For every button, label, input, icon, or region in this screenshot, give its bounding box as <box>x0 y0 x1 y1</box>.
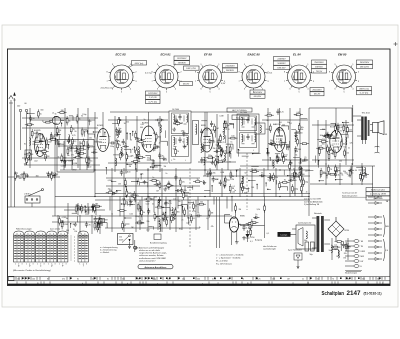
svg-text:MW: MW <box>361 256 365 258</box>
svg-text:2) 4 W bei AM-Betrieb: 2) 4 W bei AM-Betrieb <box>304 200 323 203</box>
svg-text:500: 500 <box>43 141 46 143</box>
svg-text:5n: 5n <box>99 217 101 219</box>
svg-text:1k: 1k <box>125 143 127 145</box>
svg-text:1k: 1k <box>47 175 49 177</box>
svg-text:500: 500 <box>19 178 22 180</box>
svg-text:12k: 12k <box>349 129 352 131</box>
svg-text:20k: 20k <box>282 124 285 126</box>
IF transformer Fi2 <box>237 114 259 153</box>
ratio filter box <box>232 115 249 120</box>
svg-text:250/245V: 250/245V <box>312 89 322 91</box>
RF front-end components <box>22 108 98 168</box>
pickup jack TA <box>294 253 302 260</box>
svg-text:300: 300 <box>301 174 304 176</box>
svg-text:300: 300 <box>212 141 215 143</box>
svg-text:Lautspr.: Lautspr. <box>280 234 288 237</box>
svg-text:0,25: 0,25 <box>192 211 196 213</box>
svg-text:47k: 47k <box>158 221 161 223</box>
svg-text:50p: 50p <box>182 279 185 281</box>
svg-text:0,5M: 0,5M <box>220 172 224 174</box>
svg-text:Wellenschalter: Wellenschalter <box>371 189 386 192</box>
svg-text:5k: 5k <box>341 175 343 177</box>
tube socket voltage table f <box>78 231 88 262</box>
svg-text:3: 3 <box>22 263 23 265</box>
svg-text:0/0,9V: 0/0,9V <box>183 83 190 85</box>
svg-text:150p: 150p <box>110 146 114 148</box>
svg-text:2M: 2M <box>186 133 189 135</box>
svg-text:1k: 1k <box>173 159 175 161</box>
svg-text:5: 5 <box>382 283 383 285</box>
svg-text:7/6,5V: 7/6,5V <box>316 71 323 73</box>
svg-text:sind zu beachten!: sind zu beachten! <box>139 260 156 263</box>
svg-text:2n: 2n <box>332 145 334 147</box>
svg-text:L: L <box>253 150 254 152</box>
svg-text:30k: 30k <box>134 195 137 197</box>
registration mark <box>394 42 398 46</box>
svg-text:8n: 8n <box>47 279 49 281</box>
svg-text:5k: 5k <box>295 155 297 157</box>
schematic border frame <box>8 49 391 286</box>
svg-text:c = Skalenl.: c = Skalenl. <box>100 252 110 254</box>
svg-text:70: 70 <box>332 279 334 281</box>
svg-text:a = Leitungssicherung: a = Leitungssicherung <box>100 246 118 249</box>
svg-text:1k: 1k <box>247 224 249 226</box>
svg-text:U K M L: U K M L <box>24 194 31 196</box>
svg-text:1k: 1k <box>225 151 227 153</box>
svg-text:0/6V (m): 0/6V (m) <box>135 63 144 65</box>
svg-text:12: 12 <box>307 283 309 285</box>
svg-text:240: 240 <box>17 106 20 108</box>
svg-text:110: 110 <box>119 237 122 239</box>
svg-text:300: 300 <box>119 130 122 132</box>
svg-text:0,25: 0,25 <box>72 135 76 137</box>
tube V2 ECH81 triode <box>97 129 109 152</box>
svg-text:W = 0,5 Watt: W = 0,5 Watt <box>216 260 228 263</box>
svg-text:90: 90 <box>182 141 184 143</box>
svg-text:5k: 5k <box>320 146 322 148</box>
rounded label box Antennen <box>138 265 173 269</box>
oscillator coil L5 <box>52 116 60 124</box>
svg-text:30k: 30k <box>277 157 280 159</box>
svg-text:50p: 50p <box>147 158 150 160</box>
wire y184 right <box>310 183 373 185</box>
wire EM80 columns <box>217 197 220 248</box>
svg-text:10n: 10n <box>89 137 92 139</box>
wire grid bus y112 <box>110 111 237 113</box>
capacitor C71 group <box>242 225 245 231</box>
svg-text:47k: 47k <box>72 160 75 162</box>
ratio detector label box <box>227 108 252 112</box>
svg-text:a: a <box>202 283 203 285</box>
svg-text:5k: 5k <box>96 204 98 206</box>
wire vertical x232 <box>231 197 233 212</box>
wire dashed vertical x247 <box>246 153 248 210</box>
svg-text:0,25: 0,25 <box>186 223 190 225</box>
detector stage components <box>262 108 309 170</box>
svg-text:2n: 2n <box>348 147 350 149</box>
svg-text:12k: 12k <box>227 279 230 281</box>
svg-text:300: 300 <box>165 217 168 219</box>
svg-text:8n: 8n <box>361 166 363 168</box>
loudspeaker socket label <box>278 232 291 237</box>
svg-text:1: 1 <box>26 263 27 265</box>
svg-text:10n: 10n <box>128 193 131 195</box>
svg-text:20k: 20k <box>152 160 155 162</box>
svg-text:12: 12 <box>217 283 219 285</box>
IF can interior <box>172 118 189 160</box>
svg-text:47k: 47k <box>254 218 257 220</box>
speaker LS <box>370 121 384 135</box>
svg-text:0,02: 0,02 <box>34 161 38 163</box>
svg-text:2x0,4Vss (m): 2x0,4Vss (m) <box>101 88 114 90</box>
svg-text:10n: 10n <box>329 250 332 252</box>
svg-text:0,02: 0,02 <box>167 279 171 281</box>
svg-text:5k: 5k <box>69 120 71 122</box>
svg-text:(51-5192-11): (51-5192-11) <box>364 291 382 295</box>
svg-text:90: 90 <box>124 123 126 125</box>
svg-text:(Messwerte: Punkte in Gestellr: (Messwerte: Punkte in Gestellrichtung) <box>13 269 51 272</box>
svg-text:8n: 8n <box>231 175 233 177</box>
svg-text:2n: 2n <box>181 219 183 221</box>
svg-text:1k: 1k <box>111 213 113 215</box>
svg-text:Zweitlautsprecher: Zweitlautsprecher <box>298 222 312 225</box>
svg-text:0,5M: 0,5M <box>219 116 223 118</box>
svg-text:12k: 12k <box>184 190 187 192</box>
svg-text:schlossen werden, Schutz-: schlossen werden, Schutz- <box>139 254 164 257</box>
mixer stage components <box>108 116 168 172</box>
svg-text:8n: 8n <box>24 143 26 145</box>
svg-text:20k: 20k <box>337 126 340 128</box>
svg-text:12k: 12k <box>181 130 184 132</box>
svg-text:1k: 1k <box>195 206 197 208</box>
wire drops from bus <box>109 197 111 211</box>
wire vertical x309 <box>308 108 310 197</box>
IF filter Fi1b <box>193 121 199 145</box>
wire vertical x95 <box>94 112 96 197</box>
svg-text:50p: 50p <box>343 147 346 149</box>
svg-text:245/240V: 245/240V <box>253 92 263 94</box>
svg-text:100: 100 <box>279 122 282 124</box>
IF transformer Fi1 <box>169 111 191 163</box>
svg-text:300: 300 <box>344 173 347 175</box>
svg-text:500: 500 <box>140 127 143 129</box>
svg-text:70: 70 <box>284 180 286 182</box>
svg-text:12k: 12k <box>38 135 41 137</box>
svg-text:100: 100 <box>164 203 167 205</box>
wire dashed vertical x190 <box>189 168 191 248</box>
svg-text:20k: 20k <box>147 221 150 223</box>
svg-text:5n: 5n <box>317 279 319 281</box>
svg-text:LW: LW <box>361 261 364 263</box>
svg-text:70: 70 <box>177 151 179 153</box>
svg-text:20k: 20k <box>275 177 278 179</box>
IF input parts <box>215 121 238 162</box>
svg-text:8n: 8n <box>58 144 60 146</box>
svg-text:30k: 30k <box>300 129 303 131</box>
power transformer Tr1 <box>317 216 320 252</box>
mains voltage selector <box>118 234 134 245</box>
svg-text:0,5M: 0,5M <box>212 279 216 281</box>
electrolytic capacitor C90 <box>305 242 309 251</box>
tube pinout V4 EABC80 <box>239 64 270 93</box>
fuse Si1 <box>133 246 136 249</box>
svg-text:0,25: 0,25 <box>338 131 342 133</box>
svg-text:150p: 150p <box>208 155 212 157</box>
svg-text:150p: 150p <box>294 188 298 190</box>
svg-text:20k: 20k <box>343 144 346 146</box>
svg-text:70: 70 <box>304 157 306 159</box>
svg-text:0/65V (m): 0/65V (m) <box>359 88 369 90</box>
svg-text:DM 225V: DM 225V <box>360 67 370 69</box>
wire vertical x205 <box>204 112 206 176</box>
svg-text:3) bei Stellung TA: 3) bei Stellung TA <box>304 203 320 206</box>
svg-text:2n: 2n <box>346 245 348 247</box>
svg-text:100: 100 <box>154 196 157 198</box>
svg-text:ECC85: ECC85 <box>34 130 41 132</box>
wire heater bus y216 <box>52 215 232 217</box>
tuner box interior <box>58 141 95 170</box>
svg-text:0,1: 0,1 <box>125 172 128 174</box>
svg-text:B250: B250 <box>345 230 349 232</box>
svg-text:500: 500 <box>173 148 176 150</box>
wire anode risers <box>103 108 336 129</box>
antenna sockets <box>19 109 22 112</box>
svg-text:47k: 47k <box>300 168 303 170</box>
svg-text:1: 1 <box>48 263 49 265</box>
svg-text:N = 10% Toleranz: N = 10% Toleranz <box>216 264 232 266</box>
wire switch drop <box>31 203 33 207</box>
svg-text:90: 90 <box>118 141 120 143</box>
svg-text:25p: 25p <box>134 158 137 160</box>
svg-text:5n: 5n <box>170 210 172 212</box>
tube V1a ECC85 triode <box>35 134 46 157</box>
svg-text:0,1: 0,1 <box>74 141 77 143</box>
svg-text:2n: 2n <box>306 192 308 194</box>
svg-text:0,25: 0,25 <box>295 176 299 178</box>
svg-text:in Stellung UKW: in Stellung UKW <box>370 193 387 196</box>
svg-text:30k: 30k <box>362 279 365 281</box>
svg-text:E250: E250 <box>251 237 255 239</box>
svg-text:70: 70 <box>228 129 230 131</box>
detector lower parts <box>289 150 309 196</box>
svg-text:500: 500 <box>63 158 66 160</box>
magic eye network components <box>203 168 308 197</box>
svg-text:10n: 10n <box>294 115 297 117</box>
svg-text:2n: 2n <box>267 120 269 122</box>
svg-text:500: 500 <box>197 279 200 281</box>
svg-text:500: 500 <box>245 173 248 175</box>
svg-text:0,5M: 0,5M <box>61 165 65 167</box>
svg-text:100/85V: 100/85V <box>277 63 286 65</box>
tube pinout V3 EF89 <box>195 64 226 93</box>
svg-text:4,5 mg: 4,5 mg <box>145 73 152 75</box>
tone network components <box>106 168 203 232</box>
svg-text:Bandbreitenregelung: Bandbreitenregelung <box>150 242 167 245</box>
svg-text:267/260V: 267/260V <box>177 58 187 60</box>
electrolytic capacitor C91 <box>311 242 315 251</box>
svg-text:500: 500 <box>85 131 88 133</box>
svg-text:20k: 20k <box>270 140 273 142</box>
svg-text:5k: 5k <box>143 212 145 214</box>
svg-text:0,02: 0,02 <box>129 213 133 215</box>
svg-text:47k: 47k <box>211 226 214 228</box>
wire PSU riser <box>308 197 310 217</box>
svg-text:300: 300 <box>66 230 69 232</box>
svg-text:2n: 2n <box>46 147 48 149</box>
svg-text:500: 500 <box>339 160 342 162</box>
svg-text:2,1/1,9V: 2,1/1,9V <box>149 97 158 99</box>
svg-text:25p: 25p <box>20 174 23 176</box>
svg-text:Ratio-Filter: Ratio-Filter <box>236 116 245 119</box>
wire bus y200 <box>95 199 310 201</box>
svg-text:1: 1 <box>15 263 16 265</box>
wire bus y176 <box>203 175 310 177</box>
svg-text:(von unten): (von unten) <box>50 228 60 231</box>
svg-text:2n: 2n <box>302 279 304 281</box>
svg-text:2M: 2M <box>148 196 151 198</box>
svg-text:0,02: 0,02 <box>50 139 54 141</box>
svg-text:150p: 150p <box>296 132 300 134</box>
svg-text:EABC 80: EABC 80 <box>248 53 261 57</box>
svg-text:300: 300 <box>185 195 188 197</box>
svg-text:8n: 8n <box>261 173 263 175</box>
svg-text:300: 300 <box>48 142 51 144</box>
svg-text:50p: 50p <box>118 128 121 130</box>
svg-text:3,2k: 3,2k <box>257 209 261 211</box>
svg-text:30k: 30k <box>122 279 125 281</box>
svg-text:0,1: 0,1 <box>117 144 120 146</box>
svg-text:5k: 5k <box>58 157 60 159</box>
svg-text:L: L <box>185 160 186 162</box>
svg-text:5n: 5n <box>230 142 232 144</box>
svg-text:12: 12 <box>292 283 294 285</box>
svg-text:30k: 30k <box>80 143 83 145</box>
IF stage components <box>198 114 236 170</box>
svg-text:10n: 10n <box>93 149 96 151</box>
callout boxes V5 <box>312 60 327 64</box>
svg-text:100: 100 <box>88 167 91 169</box>
svg-text:150p: 150p <box>32 144 36 146</box>
svg-text:1k: 1k <box>222 132 224 134</box>
tone area lower <box>137 200 214 230</box>
svg-text:20k: 20k <box>261 176 264 178</box>
svg-text:247/245V: 247/245V <box>148 93 158 95</box>
svg-text:2n: 2n <box>165 173 167 175</box>
tube socket voltage tables a-e <box>14 231 24 262</box>
svg-text:47k: 47k <box>71 155 74 157</box>
svg-text:UKW: UKW <box>72 170 77 172</box>
svg-text:1,5k: 1,5k <box>238 224 242 226</box>
svg-text:5k: 5k <box>229 162 231 164</box>
svg-text:1M: 1M <box>211 213 214 215</box>
svg-text:5k: 5k <box>293 169 295 171</box>
svg-text:2n: 2n <box>144 119 146 121</box>
svg-text:1k: 1k <box>170 185 172 187</box>
svg-text:20k: 20k <box>108 189 111 191</box>
svg-text:70: 70 <box>140 206 142 208</box>
svg-text:0,1: 0,1 <box>267 233 270 235</box>
svg-text:0,1: 0,1 <box>132 149 135 151</box>
svg-text:30k: 30k <box>61 144 64 146</box>
wire output vertical x353 <box>353 105 361 165</box>
svg-text:2n: 2n <box>220 155 222 157</box>
wire y225 stub <box>240 225 265 227</box>
svg-text:70: 70 <box>330 169 332 171</box>
tube V4 EABC80 <box>274 128 286 152</box>
svg-text:30k: 30k <box>244 193 247 195</box>
svg-text:150p: 150p <box>333 136 337 138</box>
svg-text:TR2 4012: TR2 4012 <box>362 113 370 115</box>
svg-text:0,02: 0,02 <box>146 203 150 205</box>
tube V6 EM80 magic eye <box>225 203 253 245</box>
wire AVC bus y196 <box>55 196 309 198</box>
svg-text:245/230V: 245/230V <box>360 62 370 64</box>
svg-text:1: 1 <box>37 263 38 265</box>
svg-text:8n: 8n <box>107 279 109 281</box>
svg-text:0,25: 0,25 <box>221 142 225 144</box>
svg-text:0,5M: 0,5M <box>91 146 96 148</box>
svg-text:0,5M: 0,5M <box>252 169 257 171</box>
svg-text:50p: 50p <box>227 180 230 182</box>
svg-text:12k: 12k <box>347 248 350 250</box>
svg-text:60: 60 <box>25 103 27 105</box>
svg-text:10n: 10n <box>141 222 144 224</box>
svg-text:0,02: 0,02 <box>141 124 145 126</box>
svg-text:0,25: 0,25 <box>16 176 20 178</box>
svg-text:AFC 10,7/460kHz: AFC 10,7/460kHz <box>232 109 246 112</box>
small box mid <box>154 234 161 240</box>
svg-text:Röhrenfassungen: Röhrenfassungen <box>16 229 32 231</box>
bridge rectifier Gr1 <box>328 217 344 241</box>
svg-text:5k: 5k <box>137 222 139 224</box>
svg-text:3: 3 <box>33 263 34 265</box>
svg-text:EM80: EM80 <box>240 216 245 218</box>
legend strip tick marks <box>16 277 385 284</box>
svg-text:vorgesehenen Buchsen ange-: vorgesehenen Buchsen ange- <box>139 252 167 255</box>
svg-text:90: 90 <box>178 201 180 203</box>
svg-text:0,5M: 0,5M <box>300 161 304 163</box>
svg-text:20k: 20k <box>347 279 350 281</box>
callout boxes V2 <box>174 56 190 60</box>
external connector group 3 <box>368 240 375 242</box>
small IF box <box>255 123 265 134</box>
svg-text:0,1: 0,1 <box>334 245 337 247</box>
svg-text:250/240V: 250/240V <box>314 62 324 64</box>
svg-text:1: 1 <box>79 263 80 265</box>
svg-text:30k: 30k <box>122 199 125 201</box>
svg-text:Tastensatz von der: Tastensatz von der <box>342 192 358 195</box>
svg-text:500: 500 <box>221 160 224 162</box>
wire bus y228 <box>105 227 200 229</box>
svg-text:20k: 20k <box>344 253 347 255</box>
svg-text:8n: 8n <box>162 155 164 157</box>
svg-text:1M: 1M <box>216 128 219 130</box>
wire bus y207 left <box>8 206 101 208</box>
svg-text:5k: 5k <box>197 179 199 181</box>
output stage components <box>312 120 354 165</box>
svg-text:3: 3 <box>55 263 56 265</box>
svg-text:0,1: 0,1 <box>337 147 340 149</box>
heater wiring components <box>58 215 107 234</box>
svg-text:90: 90 <box>26 176 28 178</box>
svg-text:47k: 47k <box>206 130 209 132</box>
svg-text:150p: 150p <box>95 207 99 209</box>
chassis plug column <box>345 240 354 242</box>
svg-text:Rückseite gesehen: Rückseite gesehen <box>342 194 357 197</box>
svg-text:300: 300 <box>36 176 39 178</box>
svg-text:3: 3 <box>66 263 67 265</box>
svg-text:255/80V: 255/80V <box>178 63 187 65</box>
